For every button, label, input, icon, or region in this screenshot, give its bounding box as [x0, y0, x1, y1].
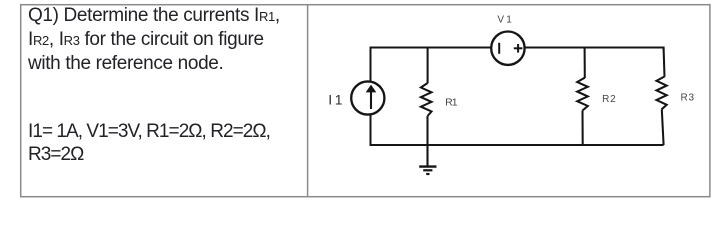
- ground: [419, 145, 436, 174]
- svg-text:R2: R2: [602, 94, 616, 105]
- voltage source V1: [491, 32, 524, 65]
- wire: top rail right of V1, with corner to R3: [524, 48, 663, 51]
- resistor R3: [657, 49, 667, 146]
- wire: bottom rail: [370, 144, 664, 146]
- wire: left branch bottom (I1 to bottom wire): [370, 114, 372, 146]
- given values text block: [28, 120, 270, 166]
- question text block: [28, 4, 280, 75]
- table outer border: [21, 5, 710, 197]
- resistor R1: [421, 48, 432, 147]
- current source I1: [351, 81, 384, 114]
- svg-text:I1: I1: [328, 91, 343, 107]
- svg-text:V1: V1: [497, 15, 512, 26]
- table column divider: [307, 5, 309, 196]
- resistor R2: [577, 48, 588, 147]
- svg-text:R3: R3: [681, 93, 695, 104]
- wire: left branch top (I1 to top-left corner): [371, 48, 492, 82]
- svg-text:R1: R1: [445, 96, 458, 108]
